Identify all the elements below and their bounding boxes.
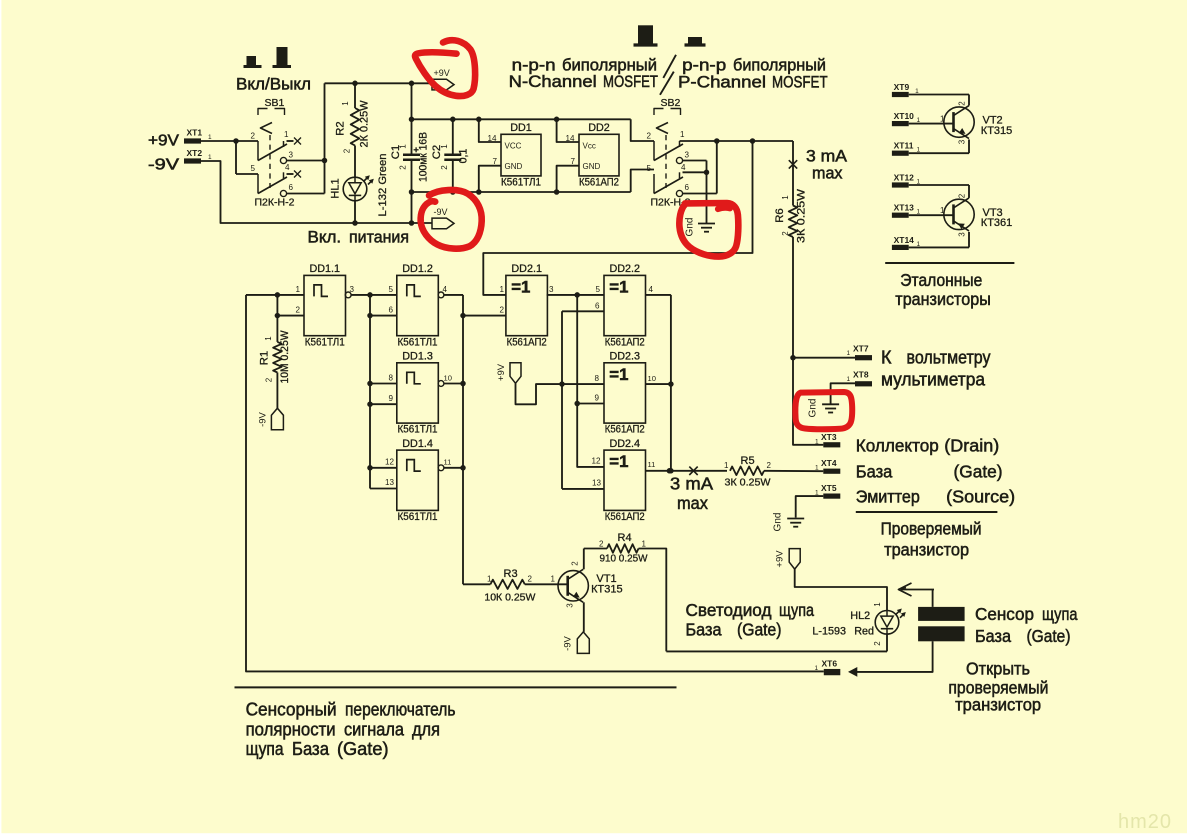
- svg-text:мультиметра: мультиметра: [881, 370, 986, 390]
- svg-text:XT2: XT2: [187, 148, 203, 158]
- svg-text:12: 12: [592, 457, 602, 466]
- svg-text:для: для: [412, 719, 440, 739]
- svg-text:14: 14: [566, 134, 576, 143]
- svg-text:SB1: SB1: [265, 97, 285, 109]
- svg-text:10: 10: [648, 374, 656, 383]
- svg-text:+9V: +9V: [148, 133, 180, 150]
- svg-text:2: 2: [528, 575, 533, 584]
- svg-text:1: 1: [642, 540, 647, 549]
- svg-text:4: 4: [443, 285, 448, 294]
- svg-text:XT1: XT1: [187, 128, 203, 138]
- svg-text:L-132 Green: L-132 Green: [377, 153, 389, 216]
- svg-text:3: 3: [685, 151, 690, 160]
- svg-text:DD2: DD2: [588, 122, 610, 134]
- svg-text:транзистор: транзистор: [955, 695, 1041, 715]
- svg-text:GND: GND: [505, 162, 523, 171]
- svg-text:К561ТЛ1: К561ТЛ1: [501, 177, 541, 189]
- svg-text:XT9: XT9: [894, 82, 910, 92]
- svg-text:К561АП2: К561АП2: [605, 336, 645, 348]
- svg-text:HL1: HL1: [330, 178, 342, 198]
- svg-text:1: 1: [208, 154, 212, 161]
- svg-text:XT3: XT3: [821, 432, 837, 442]
- svg-text:щупа: щупа: [1042, 604, 1078, 624]
- svg-text:7: 7: [571, 157, 576, 166]
- svg-text:R6: R6: [774, 208, 786, 222]
- svg-text:=1: =1: [609, 277, 628, 296]
- svg-text:5: 5: [647, 164, 652, 173]
- svg-text:щупа: щупа: [779, 600, 814, 620]
- svg-text:Red: Red: [854, 626, 874, 638]
- svg-text:К561АП2: К561АП2: [507, 336, 547, 348]
- svg-text:13: 13: [385, 478, 395, 487]
- svg-text:XT6: XT6: [822, 659, 838, 669]
- svg-text:1: 1: [551, 575, 556, 584]
- svg-text:К561ТЛ1: К561ТЛ1: [398, 511, 438, 523]
- svg-text:+9V: +9V: [496, 363, 507, 381]
- svg-text:1: 1: [284, 130, 289, 139]
- svg-text:max: max: [812, 164, 843, 183]
- svg-text:2: 2: [343, 148, 352, 153]
- svg-text:=1: =1: [609, 365, 628, 384]
- svg-text:-9V: -9V: [258, 411, 269, 426]
- svg-text:6: 6: [289, 183, 294, 192]
- svg-text:1: 1: [873, 602, 882, 607]
- svg-text:2: 2: [399, 165, 408, 170]
- svg-text:DD2.4: DD2.4: [609, 438, 640, 450]
- svg-text:10М 0.25W: 10М 0.25W: [279, 331, 291, 384]
- svg-text:1: 1: [815, 439, 819, 446]
- svg-text:2: 2: [251, 132, 256, 141]
- svg-text:XT5: XT5: [821, 483, 837, 493]
- svg-text:КТ315: КТ315: [591, 584, 622, 596]
- svg-text:R1: R1: [259, 351, 271, 365]
- svg-text:3: 3: [566, 603, 575, 608]
- svg-text:XT8: XT8: [853, 370, 869, 380]
- svg-text:2: 2: [265, 377, 274, 382]
- svg-text:Вкл/Выкл: Вкл/Выкл: [236, 75, 311, 94]
- svg-text:1: 1: [264, 336, 273, 341]
- svg-text:(Gate): (Gate): [1027, 626, 1071, 646]
- svg-text:DD1.3: DD1.3: [402, 351, 433, 363]
- svg-text:6: 6: [389, 306, 394, 315]
- svg-text:КТ315: КТ315: [981, 125, 1012, 137]
- svg-text:-9V: -9V: [434, 207, 448, 217]
- svg-text:2: 2: [440, 165, 449, 170]
- svg-text:К561ТЛ1: К561ТЛ1: [398, 336, 438, 348]
- svg-text:Эталонные: Эталонные: [900, 270, 982, 290]
- svg-text:1: 1: [940, 114, 945, 123]
- svg-text:3 mA: 3 mA: [670, 474, 713, 494]
- svg-text:питания: питания: [349, 228, 409, 247]
- svg-text:1: 1: [781, 195, 790, 200]
- svg-text:7: 7: [493, 157, 498, 166]
- svg-text:3К 0.25W: 3К 0.25W: [796, 189, 808, 243]
- svg-text:2: 2: [781, 231, 790, 236]
- svg-text:вольтметру: вольтметру: [907, 348, 991, 368]
- svg-text:1: 1: [724, 461, 729, 470]
- svg-text:-9V: -9V: [563, 635, 574, 650]
- svg-text:Gnd: Gnd: [773, 513, 784, 532]
- svg-text:К561АП2: К561АП2: [605, 511, 645, 523]
- svg-text:К561ТЛ1: К561ТЛ1: [398, 424, 438, 436]
- svg-text:Gnd: Gnd: [808, 399, 819, 418]
- svg-text:910 0.25W: 910 0.25W: [600, 554, 648, 565]
- svg-text:К561АП2: К561АП2: [579, 177, 619, 189]
- svg-text:2: 2: [599, 540, 604, 549]
- svg-text:5: 5: [596, 285, 601, 294]
- svg-text:К: К: [881, 348, 892, 368]
- svg-text:XT14: XT14: [894, 235, 915, 245]
- svg-text:4: 4: [649, 285, 654, 294]
- svg-text:5: 5: [389, 285, 394, 294]
- svg-text:=1: =1: [511, 277, 530, 296]
- svg-text:3: 3: [289, 151, 294, 160]
- svg-text:R3: R3: [504, 568, 518, 580]
- svg-text:-9V: -9V: [148, 157, 180, 174]
- svg-text:3К 0.25W: 3К 0.25W: [725, 478, 771, 489]
- svg-text:2: 2: [571, 561, 580, 566]
- svg-text:11: 11: [444, 458, 452, 467]
- svg-text:1: 1: [208, 134, 212, 141]
- svg-text:DD2.2: DD2.2: [609, 263, 640, 275]
- svg-text:Эмиттер: Эмиттер: [856, 487, 920, 507]
- svg-text:12: 12: [385, 458, 395, 467]
- svg-text:9: 9: [389, 394, 394, 403]
- svg-text:6: 6: [595, 302, 600, 311]
- svg-text:4: 4: [285, 163, 290, 172]
- svg-text:DD1.2: DD1.2: [402, 263, 433, 275]
- svg-text:Проверяемый: Проверяемый: [881, 519, 982, 539]
- svg-text:XT11: XT11: [894, 141, 914, 151]
- svg-text:Сенсор: Сенсор: [975, 604, 1034, 624]
- svg-text:+9V: +9V: [775, 550, 786, 568]
- svg-text:полярности: полярности: [246, 719, 336, 739]
- svg-text:П2К-Н-2: П2К-Н-2: [255, 197, 295, 209]
- svg-text:2: 2: [958, 101, 967, 106]
- svg-text:(Gate): (Gate): [737, 619, 782, 639]
- svg-text:К561АП2: К561АП2: [605, 424, 645, 436]
- svg-text:переключатель: переключатель: [345, 700, 456, 720]
- svg-text:(Source): (Source): [946, 487, 1015, 507]
- svg-text:13: 13: [592, 479, 602, 488]
- svg-text:Открыть: Открыть: [966, 659, 1030, 679]
- svg-text:0,1: 0,1: [458, 149, 470, 164]
- svg-text:2К 0.25W: 2К 0.25W: [359, 101, 371, 148]
- svg-text:транзисторы: транзисторы: [895, 289, 991, 309]
- svg-text:3: 3: [549, 285, 554, 294]
- svg-text:XT13: XT13: [894, 203, 915, 213]
- svg-text:1: 1: [847, 376, 851, 383]
- svg-text:SB2: SB2: [661, 97, 681, 109]
- svg-text:1: 1: [815, 665, 819, 672]
- svg-text:R5: R5: [741, 455, 755, 467]
- svg-text:3: 3: [958, 232, 967, 237]
- svg-text:1: 1: [440, 144, 449, 149]
- svg-text:2: 2: [296, 306, 301, 315]
- svg-text:HL2: HL2: [850, 610, 870, 622]
- svg-text:N-Channel: N-Channel: [509, 72, 597, 91]
- svg-text:1: 1: [500, 285, 505, 294]
- svg-text:щупа: щупа: [246, 739, 285, 759]
- svg-text:10: 10: [444, 374, 452, 383]
- svg-text:DD1: DD1: [510, 122, 532, 134]
- svg-text:+9V: +9V: [434, 68, 450, 78]
- svg-text:(Gate): (Gate): [954, 462, 1003, 482]
- svg-text:8: 8: [389, 374, 394, 383]
- svg-text:3: 3: [958, 139, 967, 144]
- svg-text:3: 3: [350, 285, 355, 294]
- svg-text:2: 2: [500, 306, 505, 315]
- svg-text:DD1.1: DD1.1: [309, 263, 340, 275]
- svg-text:100мк 16В: 100мк 16В: [418, 132, 430, 182]
- svg-text:9: 9: [595, 394, 600, 403]
- svg-text:max: max: [677, 493, 708, 513]
- svg-text:R2: R2: [335, 121, 347, 135]
- svg-text:2: 2: [767, 461, 772, 470]
- svg-text:10К 0.25W: 10К 0.25W: [484, 593, 535, 604]
- svg-text:8: 8: [595, 374, 600, 383]
- svg-text:Светодиод: Светодиод: [686, 600, 772, 620]
- svg-text:База: База: [292, 739, 330, 759]
- svg-text:MOSFET: MOSFET: [603, 72, 658, 91]
- svg-text:1: 1: [940, 206, 945, 215]
- svg-text:P-Channel: P-Channel: [678, 73, 766, 92]
- svg-text:Vcc: Vcc: [583, 142, 596, 151]
- svg-text:База: База: [975, 626, 1011, 646]
- svg-text:1: 1: [296, 285, 301, 294]
- svg-text:6: 6: [685, 183, 690, 192]
- svg-text:DD2.3: DD2.3: [609, 351, 640, 363]
- svg-text:XT4: XT4: [821, 458, 837, 468]
- svg-text:1: 1: [847, 350, 851, 357]
- svg-text:VCC: VCC: [505, 142, 522, 151]
- svg-text:XT10: XT10: [894, 111, 915, 121]
- svg-text:Вкл.: Вкл.: [308, 228, 342, 247]
- svg-text:База: База: [686, 619, 722, 639]
- svg-text:XT12: XT12: [894, 173, 915, 183]
- svg-text:(Drain): (Drain): [944, 436, 999, 456]
- svg-text:GND: GND: [583, 162, 601, 171]
- svg-text:сигнала: сигнала: [344, 719, 405, 739]
- svg-text:1: 1: [399, 144, 408, 149]
- svg-text:hm20: hm20: [1118, 811, 1172, 833]
- svg-text:XT7: XT7: [853, 344, 869, 354]
- svg-text:1: 1: [487, 575, 492, 584]
- svg-text:4: 4: [681, 163, 686, 172]
- svg-text:5: 5: [251, 164, 256, 173]
- svg-text:Gnd: Gnd: [685, 218, 696, 237]
- svg-text:транзистор: транзистор: [884, 540, 969, 560]
- svg-text:=1: =1: [609, 452, 628, 471]
- svg-text:2: 2: [958, 193, 967, 198]
- svg-text:2: 2: [647, 132, 652, 141]
- svg-text:2: 2: [873, 641, 882, 646]
- svg-text:R4: R4: [618, 532, 632, 544]
- svg-text:11: 11: [648, 460, 656, 469]
- svg-text:Коллектор: Коллектор: [856, 436, 939, 456]
- svg-text:DD2.1: DD2.1: [511, 263, 542, 275]
- svg-text:MOSFET: MOSFET: [772, 73, 828, 92]
- svg-text:14: 14: [488, 134, 498, 143]
- svg-text:База: База: [856, 462, 893, 482]
- svg-text:(Gate): (Gate): [337, 739, 389, 759]
- svg-text:1: 1: [341, 101, 350, 106]
- svg-text:К561ТЛ1: К561ТЛ1: [305, 336, 345, 348]
- svg-text:DD1.4: DD1.4: [402, 438, 433, 450]
- svg-text:L-1593: L-1593: [812, 626, 846, 638]
- svg-text:1: 1: [680, 130, 685, 139]
- svg-text:Сенсорный: Сенсорный: [246, 700, 337, 720]
- svg-text:КТ361: КТ361: [981, 217, 1012, 229]
